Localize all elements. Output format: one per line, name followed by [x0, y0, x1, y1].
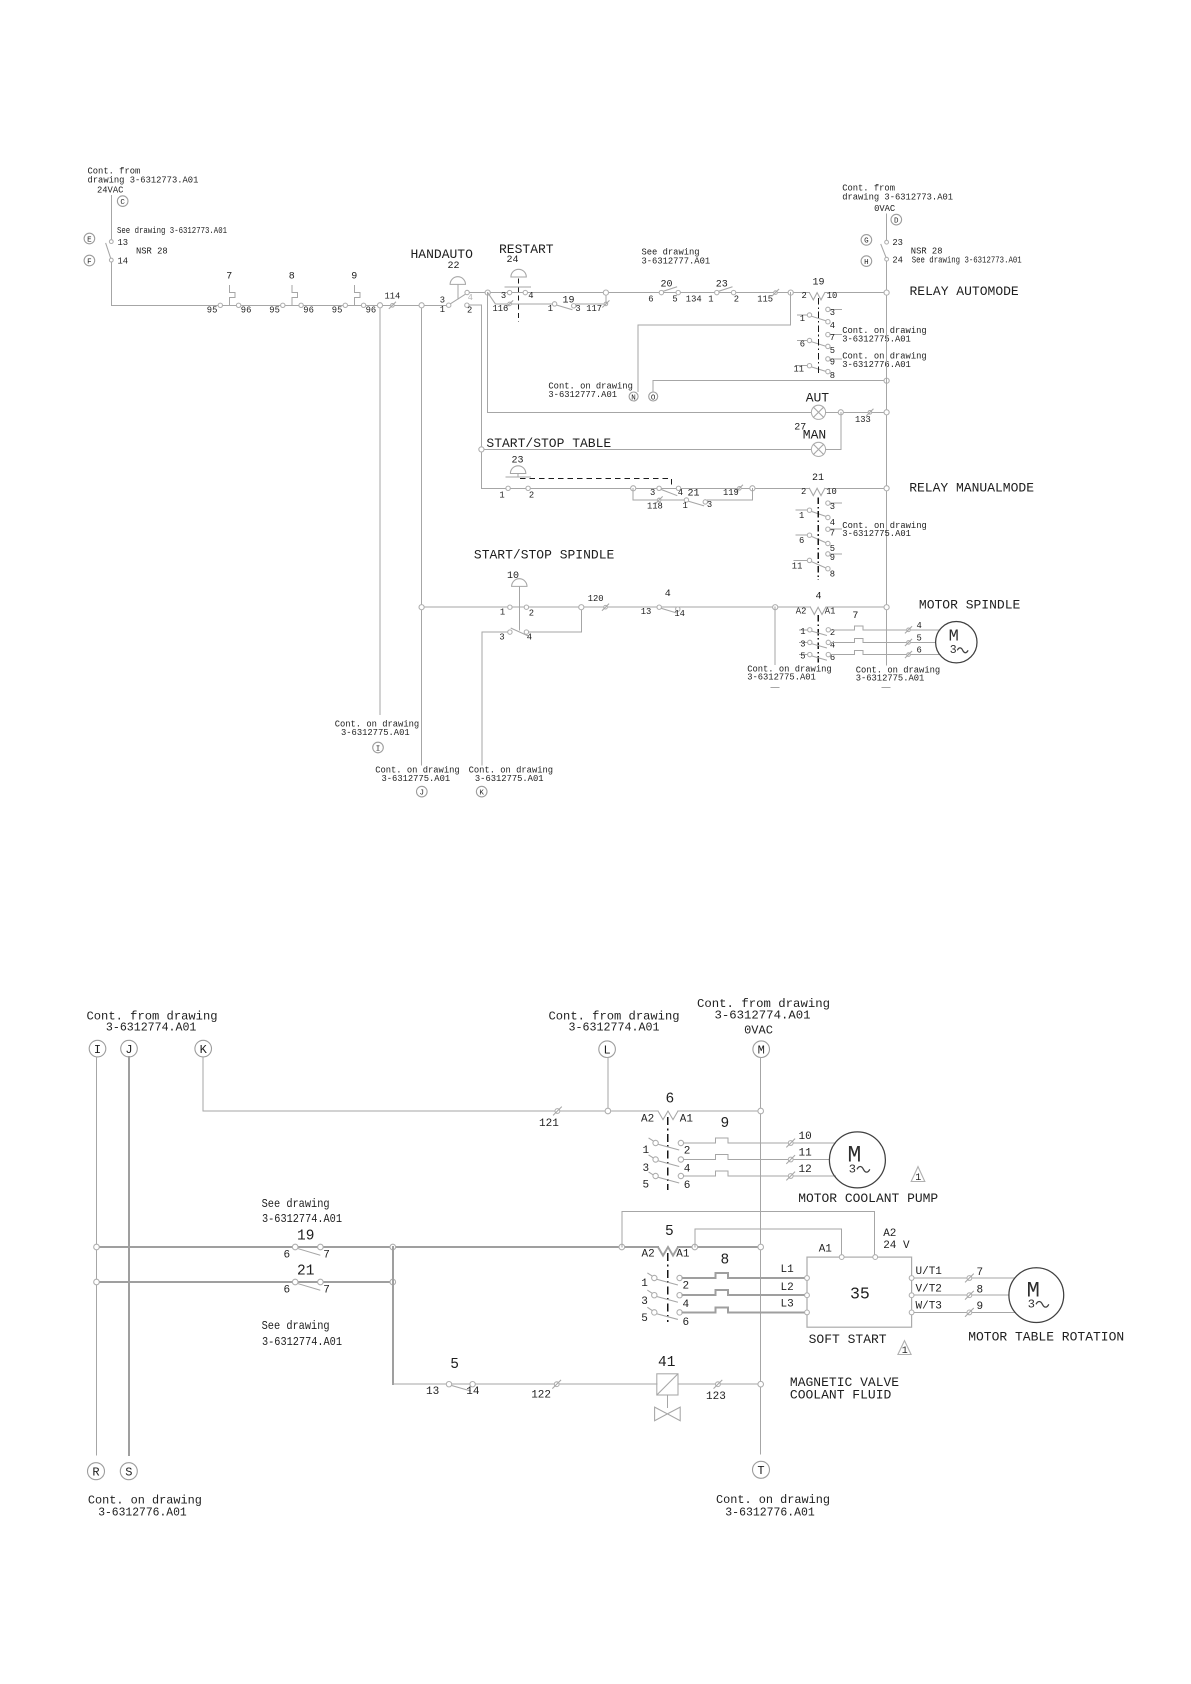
relay coil 19	[802, 277, 887, 301]
node D	[891, 214, 902, 225]
node holding 21 tap	[750, 486, 755, 491]
wire number 121	[539, 1107, 561, 1130]
wire 24V feed loop	[622, 1212, 875, 1255]
node C	[117, 196, 128, 207]
svg-text:R: R	[92, 1466, 99, 1480]
node I/row21	[94, 1279, 100, 1285]
svg-text:N: N	[631, 394, 636, 402]
svg-text:7: 7	[830, 528, 835, 538]
wire pump line 11 with overload bump	[684, 1154, 830, 1159]
svg-text:3-6312775.A01: 3-6312775.A01	[747, 673, 816, 683]
svg-text:drawing 3-6312773.A01: drawing 3-6312773.A01	[88, 176, 199, 186]
svg-text:10: 10	[799, 1131, 812, 1143]
svg-text:RELAY MANUALMODE: RELAY MANUALMODE	[909, 481, 1034, 496]
svg-text:3: 3	[950, 644, 957, 657]
node J	[121, 1040, 138, 1057]
svg-text:24: 24	[507, 255, 519, 266]
svg-text:14: 14	[674, 609, 685, 619]
svg-text:5: 5	[450, 1357, 459, 1373]
wire row 19 to contactor 5 coil	[97, 1246, 659, 1248]
contactor 5 pole 1-2	[641, 1273, 689, 1292]
svg-text:4: 4	[816, 592, 822, 603]
svg-text:4: 4	[684, 1164, 691, 1176]
wire number 119	[723, 485, 743, 498]
node 24V tap	[619, 1244, 625, 1250]
svg-text:G: G	[864, 238, 869, 246]
wire 118 row to node	[708, 488, 753, 500]
node 117/row	[603, 290, 608, 295]
svg-text:L: L	[604, 1044, 611, 1058]
svg-text:5: 5	[672, 294, 677, 304]
contact 5 (13-14) valve	[426, 1357, 480, 1398]
svg-text:35: 35	[850, 1284, 870, 1303]
node junction (drop to AUT lamp)	[485, 290, 490, 295]
wire main bus	[111, 304, 446, 306]
svg-text:3: 3	[849, 1162, 856, 1176]
label Cont. on drawing 3-6312776.A01 (left bottom)	[88, 1493, 202, 1519]
wire number 114	[385, 291, 401, 308]
wire HANDAUTO contact2 stub	[469, 304, 481, 306]
aux 21 contact 1-4/3	[796, 509, 808, 511]
svg-text:11: 11	[799, 1148, 813, 1160]
contactor coil 5	[642, 1224, 761, 1260]
svg-text:1: 1	[641, 1278, 648, 1290]
svg-text:96: 96	[303, 306, 314, 316]
svg-text:3: 3	[800, 639, 805, 649]
svg-text:MAN: MAN	[803, 428, 826, 443]
contact 20 (6-5)	[648, 280, 680, 305]
svg-text:1: 1	[500, 607, 505, 617]
svg-text:NSR 28: NSR 28	[136, 247, 168, 257]
svg-text:20: 20	[661, 280, 673, 291]
svg-text:11: 11	[792, 561, 803, 571]
wire drop HANDAUTO contact2 to table row	[480, 305, 482, 488]
svg-text:6: 6	[799, 536, 804, 546]
relay coil 21	[801, 473, 887, 497]
svg-text:9: 9	[721, 1116, 730, 1132]
label NSR 28 / See drawing (right)	[911, 247, 1022, 266]
svg-text:2: 2	[529, 608, 534, 618]
svg-text:See drawing 3-6312773.A01: See drawing 3-6312773.A01	[117, 226, 227, 236]
wire row 21	[97, 1281, 393, 1283]
node MAN row	[479, 447, 484, 452]
label Cont. on drawing 3-6312776.A01 (right bottom)	[716, 1493, 830, 1520]
wire 0VAC rail	[886, 261, 888, 665]
contact 23 (1-2)	[708, 280, 739, 305]
svg-text:3: 3	[501, 291, 506, 301]
svg-text:117: 117	[586, 304, 602, 314]
svg-text:19: 19	[297, 1229, 314, 1245]
svg-text:21: 21	[812, 473, 824, 484]
svg-text:6: 6	[917, 645, 922, 655]
label Cont. from drawing 3-6312774.A01 (middle header)	[549, 1009, 680, 1034]
svg-text:A1: A1	[676, 1248, 690, 1260]
svg-text:F: F	[87, 258, 92, 266]
svg-text:1: 1	[800, 627, 805, 637]
labels U/T1 V/T2 W/T3	[916, 1266, 943, 1313]
mech link contactor 6	[667, 1117, 669, 1190]
svg-text:5: 5	[643, 1180, 650, 1192]
node bypass	[579, 605, 584, 610]
svg-text:2: 2	[734, 294, 739, 304]
node H	[861, 256, 872, 267]
wire number 133	[855, 409, 873, 425]
svg-text:13: 13	[426, 1386, 439, 1398]
svg-text:118: 118	[647, 502, 663, 512]
button 23 pole 3-4	[650, 486, 683, 498]
svg-text:7: 7	[323, 1249, 330, 1261]
switch NSR 28 contact 23-24	[881, 238, 903, 265]
aux 21 contact 11-8/9	[794, 559, 808, 561]
svg-text:3-6312775.A01: 3-6312775.A01	[475, 774, 544, 784]
wire L2 with overload bump	[682, 1290, 804, 1295]
svg-text:3-6312774.A01: 3-6312774.A01	[262, 1212, 342, 1226]
svg-text:A1: A1	[680, 1113, 694, 1125]
svg-text:1: 1	[708, 294, 713, 304]
svg-text:5: 5	[917, 634, 922, 644]
svg-text:10: 10	[507, 571, 519, 582]
wire diagonal to 116 row	[488, 293, 496, 304]
wire number 117	[586, 301, 609, 314]
wire up to row	[605, 293, 607, 304]
svg-text:See drawing: See drawing	[262, 1319, 330, 1333]
labels L1 L2 L3	[781, 1264, 795, 1311]
svg-text:24: 24	[892, 256, 903, 266]
svg-text:13: 13	[118, 238, 129, 248]
contactor 6 pole 3-4	[643, 1155, 691, 1175]
node MAN tap	[838, 410, 843, 415]
svg-text:S: S	[125, 1466, 132, 1480]
svg-text:4: 4	[527, 633, 532, 643]
svg-text:10: 10	[827, 291, 838, 301]
svg-text:See drawing 3-6312773.A01: See drawing 3-6312773.A01	[912, 256, 1022, 266]
label Cont. on drawing (J)	[375, 766, 459, 784]
svg-text:1: 1	[902, 1346, 908, 1357]
svg-text:3: 3	[575, 304, 580, 314]
svg-text:I: I	[94, 1043, 101, 1057]
svg-text:3: 3	[440, 295, 445, 305]
node K	[195, 1040, 212, 1057]
svg-text:9: 9	[351, 271, 357, 282]
svg-text:7: 7	[852, 611, 858, 622]
overload contact 7 (95-96)	[207, 271, 252, 315]
label Cont. on drawing 3-6312775.A01 (aux 21)	[842, 521, 926, 539]
label See drawing 3-6312774.A01 (below 21)	[262, 1319, 342, 1349]
contact 4 (13-14)	[641, 589, 685, 619]
svg-text:3: 3	[643, 1163, 650, 1175]
label: Cont. from drawing 3-6312773.A01 (top-left)	[88, 167, 199, 196]
svg-text:9: 9	[977, 1301, 984, 1313]
button 10 pole 3-4	[499, 628, 532, 642]
svg-text:1: 1	[548, 304, 553, 314]
svg-text:RELAY AUTOMODE: RELAY AUTOMODE	[910, 284, 1019, 299]
svg-text:K: K	[200, 1043, 208, 1057]
overload contact 9 (95-96)	[332, 271, 376, 315]
node A1 tap	[692, 1244, 698, 1250]
motor M 3~ spindle	[936, 622, 977, 663]
label Cont. on drawing 3-6312776.A01 (aux 19 nc9)	[842, 352, 926, 370]
magnetic valve 41	[655, 1355, 681, 1421]
lamp MAN	[811, 442, 825, 456]
svg-text:4: 4	[917, 621, 922, 631]
svg-text:drawing 3-6312773.A01: drawing 3-6312773.A01	[842, 193, 953, 203]
node rail/valve	[758, 1381, 764, 1387]
contactor 4 pole 1-2	[800, 627, 836, 638]
svg-text:T: T	[757, 1464, 764, 1478]
svg-text:7: 7	[226, 271, 232, 282]
svg-text:3-6312776.A01: 3-6312776.A01	[98, 1505, 187, 1519]
holding contact 19 (1-3)	[548, 295, 581, 314]
aux 19 contact 6-5/7	[798, 340, 808, 342]
svg-text:3: 3	[830, 308, 835, 318]
svg-text:SOFT START: SOFT START	[809, 1332, 887, 1347]
svg-text:M: M	[758, 1044, 765, 1058]
node I (top section)	[373, 742, 384, 753]
svg-text:96: 96	[241, 306, 252, 316]
svg-text:3-6312774.A01: 3-6312774.A01	[106, 1021, 196, 1035]
svg-text:L1: L1	[781, 1264, 795, 1276]
svg-text:1: 1	[440, 305, 445, 315]
mech link dashed button 23	[520, 479, 671, 486]
svg-text:A1: A1	[819, 1243, 833, 1255]
svg-text:5: 5	[830, 346, 835, 356]
wire number 120	[588, 594, 609, 610]
wire valve to rail	[678, 1383, 761, 1385]
node M	[753, 1041, 770, 1058]
svg-text:4: 4	[468, 293, 473, 303]
lamp AUT	[806, 391, 830, 420]
label See drawing / 13 / NSR 28 / 14	[117, 226, 227, 267]
svg-text:23: 23	[716, 280, 728, 291]
wire AUT lamp row	[488, 411, 812, 413]
mech link relay 21	[817, 498, 819, 581]
node S	[120, 1463, 137, 1480]
svg-text:1: 1	[915, 1173, 921, 1184]
svg-text:2: 2	[683, 1281, 690, 1293]
svg-text:14: 14	[466, 1386, 480, 1398]
svg-text:133: 133	[855, 415, 871, 425]
labels A1 / A2 24 V	[819, 1228, 910, 1255]
svg-text:8: 8	[721, 1253, 730, 1269]
soft start box 35	[805, 1255, 914, 1328]
wire A2 drop	[774, 607, 776, 664]
svg-text:5: 5	[665, 1224, 674, 1240]
switch NSR 28 contact 13-14	[106, 240, 113, 262]
svg-text:119: 119	[723, 488, 739, 498]
label MAGNETIC VALVE COOLANT FLUID	[790, 1375, 899, 1402]
node coil4 tap	[773, 605, 778, 610]
wire drop to AUT lamp row	[487, 293, 489, 413]
label Cont. on drawing (K)	[469, 766, 553, 784]
node rail/coil4	[884, 605, 889, 610]
node rail/coil21	[884, 486, 889, 491]
wire A1 feed loop	[695, 1229, 842, 1255]
svg-text:A2: A2	[642, 1248, 655, 1260]
svg-text:24VAC: 24VAC	[97, 186, 123, 196]
svg-text:8: 8	[977, 1284, 984, 1296]
contactor 6 pole 5-6	[643, 1172, 691, 1192]
wire spindle row	[422, 606, 811, 608]
node E	[84, 233, 95, 244]
mech link contactor 4	[817, 615, 819, 663]
node L/row	[605, 1108, 611, 1114]
svg-text:6: 6	[800, 340, 805, 350]
wire pole5 to motor with overload bump	[831, 651, 940, 655]
label Cont. on drawing (I)	[335, 720, 419, 738]
mech link relay 19	[817, 298, 819, 376]
label Cont. on drawing (rail end)	[856, 665, 940, 683]
node K (top section)	[476, 786, 487, 797]
svg-text:MOTOR COOLANT PUMP: MOTOR COOLANT PUMP	[798, 1191, 938, 1206]
svg-text:3: 3	[499, 633, 504, 643]
node L	[599, 1041, 616, 1058]
node spindle row / J drop	[419, 605, 424, 610]
node I	[89, 1040, 106, 1057]
svg-text:3: 3	[641, 1296, 648, 1308]
aux 19 contact 1-4/3	[798, 314, 808, 316]
svg-text:6: 6	[284, 1249, 291, 1261]
svg-text:8: 8	[830, 569, 835, 579]
svg-text:J: J	[125, 1043, 132, 1057]
svg-text:21: 21	[297, 1263, 314, 1279]
label Cont. on drawing (A2 drop)	[747, 664, 831, 682]
svg-text:3: 3	[650, 488, 655, 498]
svg-text:21: 21	[688, 489, 700, 500]
wire pole3 left + drop to K	[482, 632, 508, 765]
wire N tap loop	[638, 293, 791, 392]
node I/row19	[94, 1244, 100, 1250]
svg-text:6: 6	[684, 1180, 691, 1192]
svg-text:2: 2	[467, 305, 472, 315]
svg-text:122: 122	[531, 1390, 551, 1402]
wire J vertical	[128, 1057, 130, 1455]
pushbutton RESTART 24	[499, 242, 554, 322]
aux 19 contact 11-8/9	[796, 365, 808, 367]
svg-text:121: 121	[539, 1118, 559, 1130]
wire AUT lamp to rail	[826, 411, 887, 413]
node T	[753, 1461, 770, 1478]
svg-text:13: 13	[641, 607, 652, 617]
wire numbers 10 11 12	[787, 1131, 812, 1180]
wire table row	[481, 487, 809, 489]
aux 21 contact 6-5/7	[796, 534, 808, 536]
svg-text:19: 19	[813, 277, 825, 288]
svg-text:1: 1	[799, 511, 804, 521]
svg-text:3-6312774.A01: 3-6312774.A01	[569, 1021, 660, 1035]
svg-text:4: 4	[683, 1299, 690, 1311]
svg-text:1: 1	[683, 501, 688, 511]
node rail/O	[884, 378, 889, 383]
svg-text:23: 23	[892, 238, 903, 248]
svg-text:See drawing: See drawing	[262, 1197, 330, 1211]
node rail/coil19	[884, 290, 889, 295]
wire L3 with overload bump	[682, 1307, 804, 1312]
wire numbers 7 8 9	[965, 1267, 983, 1316]
svg-text:3: 3	[1028, 1298, 1035, 1312]
svg-text:A1: A1	[825, 606, 836, 616]
svg-text:A2: A2	[641, 1113, 654, 1125]
svg-text:9: 9	[830, 553, 835, 563]
svg-text:V/T2: V/T2	[916, 1284, 942, 1296]
wire V/T2 to motor	[914, 1294, 1009, 1296]
node on bus (J drop)	[419, 303, 424, 308]
wire number 118	[647, 497, 663, 512]
node G	[861, 235, 872, 246]
svg-text:9: 9	[830, 357, 835, 367]
node (N tap)	[788, 290, 793, 295]
wire 0VAC rail top	[886, 214, 888, 241]
svg-text:6: 6	[648, 294, 653, 304]
svg-text:115: 115	[757, 294, 773, 304]
svg-text:5: 5	[641, 1313, 648, 1325]
svg-text:10: 10	[826, 487, 837, 497]
svg-text:95: 95	[332, 306, 343, 316]
svg-text:41: 41	[658, 1355, 675, 1371]
svg-text:123: 123	[706, 1391, 726, 1403]
svg-text:0VAC: 0VAC	[874, 204, 895, 214]
wire L vertical	[607, 1058, 609, 1112]
pushbutton 23 START/STOP TABLE	[499, 455, 534, 500]
label Cont. from drawing 3-6312774.A01 (left header)	[87, 1010, 218, 1035]
node on bus (I drop)	[377, 303, 382, 308]
svg-text:J: J	[420, 789, 425, 797]
svg-text:7: 7	[323, 1284, 330, 1296]
wire K to contactor 6 row	[203, 1057, 658, 1111]
wire W/T3 to motor	[914, 1311, 1015, 1313]
svg-text:96: 96	[366, 306, 377, 316]
svg-text:11: 11	[794, 365, 805, 375]
relay 21 aux contact block	[792, 501, 842, 580]
wire number 116	[493, 301, 513, 314]
svg-text:START/STOP SPINDLE: START/STOP SPINDLE	[474, 548, 615, 563]
wire number 115	[757, 289, 779, 304]
wire I vertical	[96, 1057, 98, 1455]
svg-text:3: 3	[707, 500, 712, 510]
svg-text:3-6312777.A01: 3-6312777.A01	[548, 390, 617, 400]
node rail/AUT	[884, 410, 889, 415]
svg-text:H: H	[864, 259, 869, 267]
svg-text:22: 22	[448, 261, 460, 272]
svg-text:2: 2	[801, 487, 806, 497]
svg-text:6: 6	[284, 1284, 291, 1296]
svg-text:95: 95	[269, 306, 280, 316]
svg-text:4: 4	[678, 488, 683, 498]
pushbutton 10 START/STOP SPINDLE	[500, 571, 534, 630]
svg-text:D: D	[894, 217, 899, 225]
svg-text:I: I	[376, 745, 381, 753]
node rail/coil6	[758, 1108, 764, 1114]
wire to main bus	[110, 262, 112, 305]
svg-text:6: 6	[666, 1091, 675, 1107]
wire 116 row	[495, 303, 553, 305]
node J (top section)	[417, 786, 428, 797]
svg-text:2: 2	[684, 1146, 691, 1158]
tick marks	[771, 686, 779, 688]
node N	[629, 392, 638, 402]
svg-text:4: 4	[528, 291, 533, 301]
svg-text:3-6312774.A01: 3-6312774.A01	[715, 1008, 811, 1022]
svg-text:3-6312774.A01: 3-6312774.A01	[262, 1335, 342, 1349]
motor M 3~ table rotation	[1009, 1268, 1064, 1323]
svg-text:3-6312775.A01: 3-6312775.A01	[842, 334, 911, 344]
contactor 5 pole 3-4	[641, 1290, 689, 1310]
svg-text:24 V: 24 V	[883, 1240, 910, 1252]
svg-text:8: 8	[830, 371, 835, 381]
svg-text:120: 120	[588, 594, 604, 604]
svg-text:23: 23	[512, 455, 524, 466]
wire 24VAC down	[110, 195, 112, 239]
relay 19 aux contact block	[794, 307, 842, 381]
